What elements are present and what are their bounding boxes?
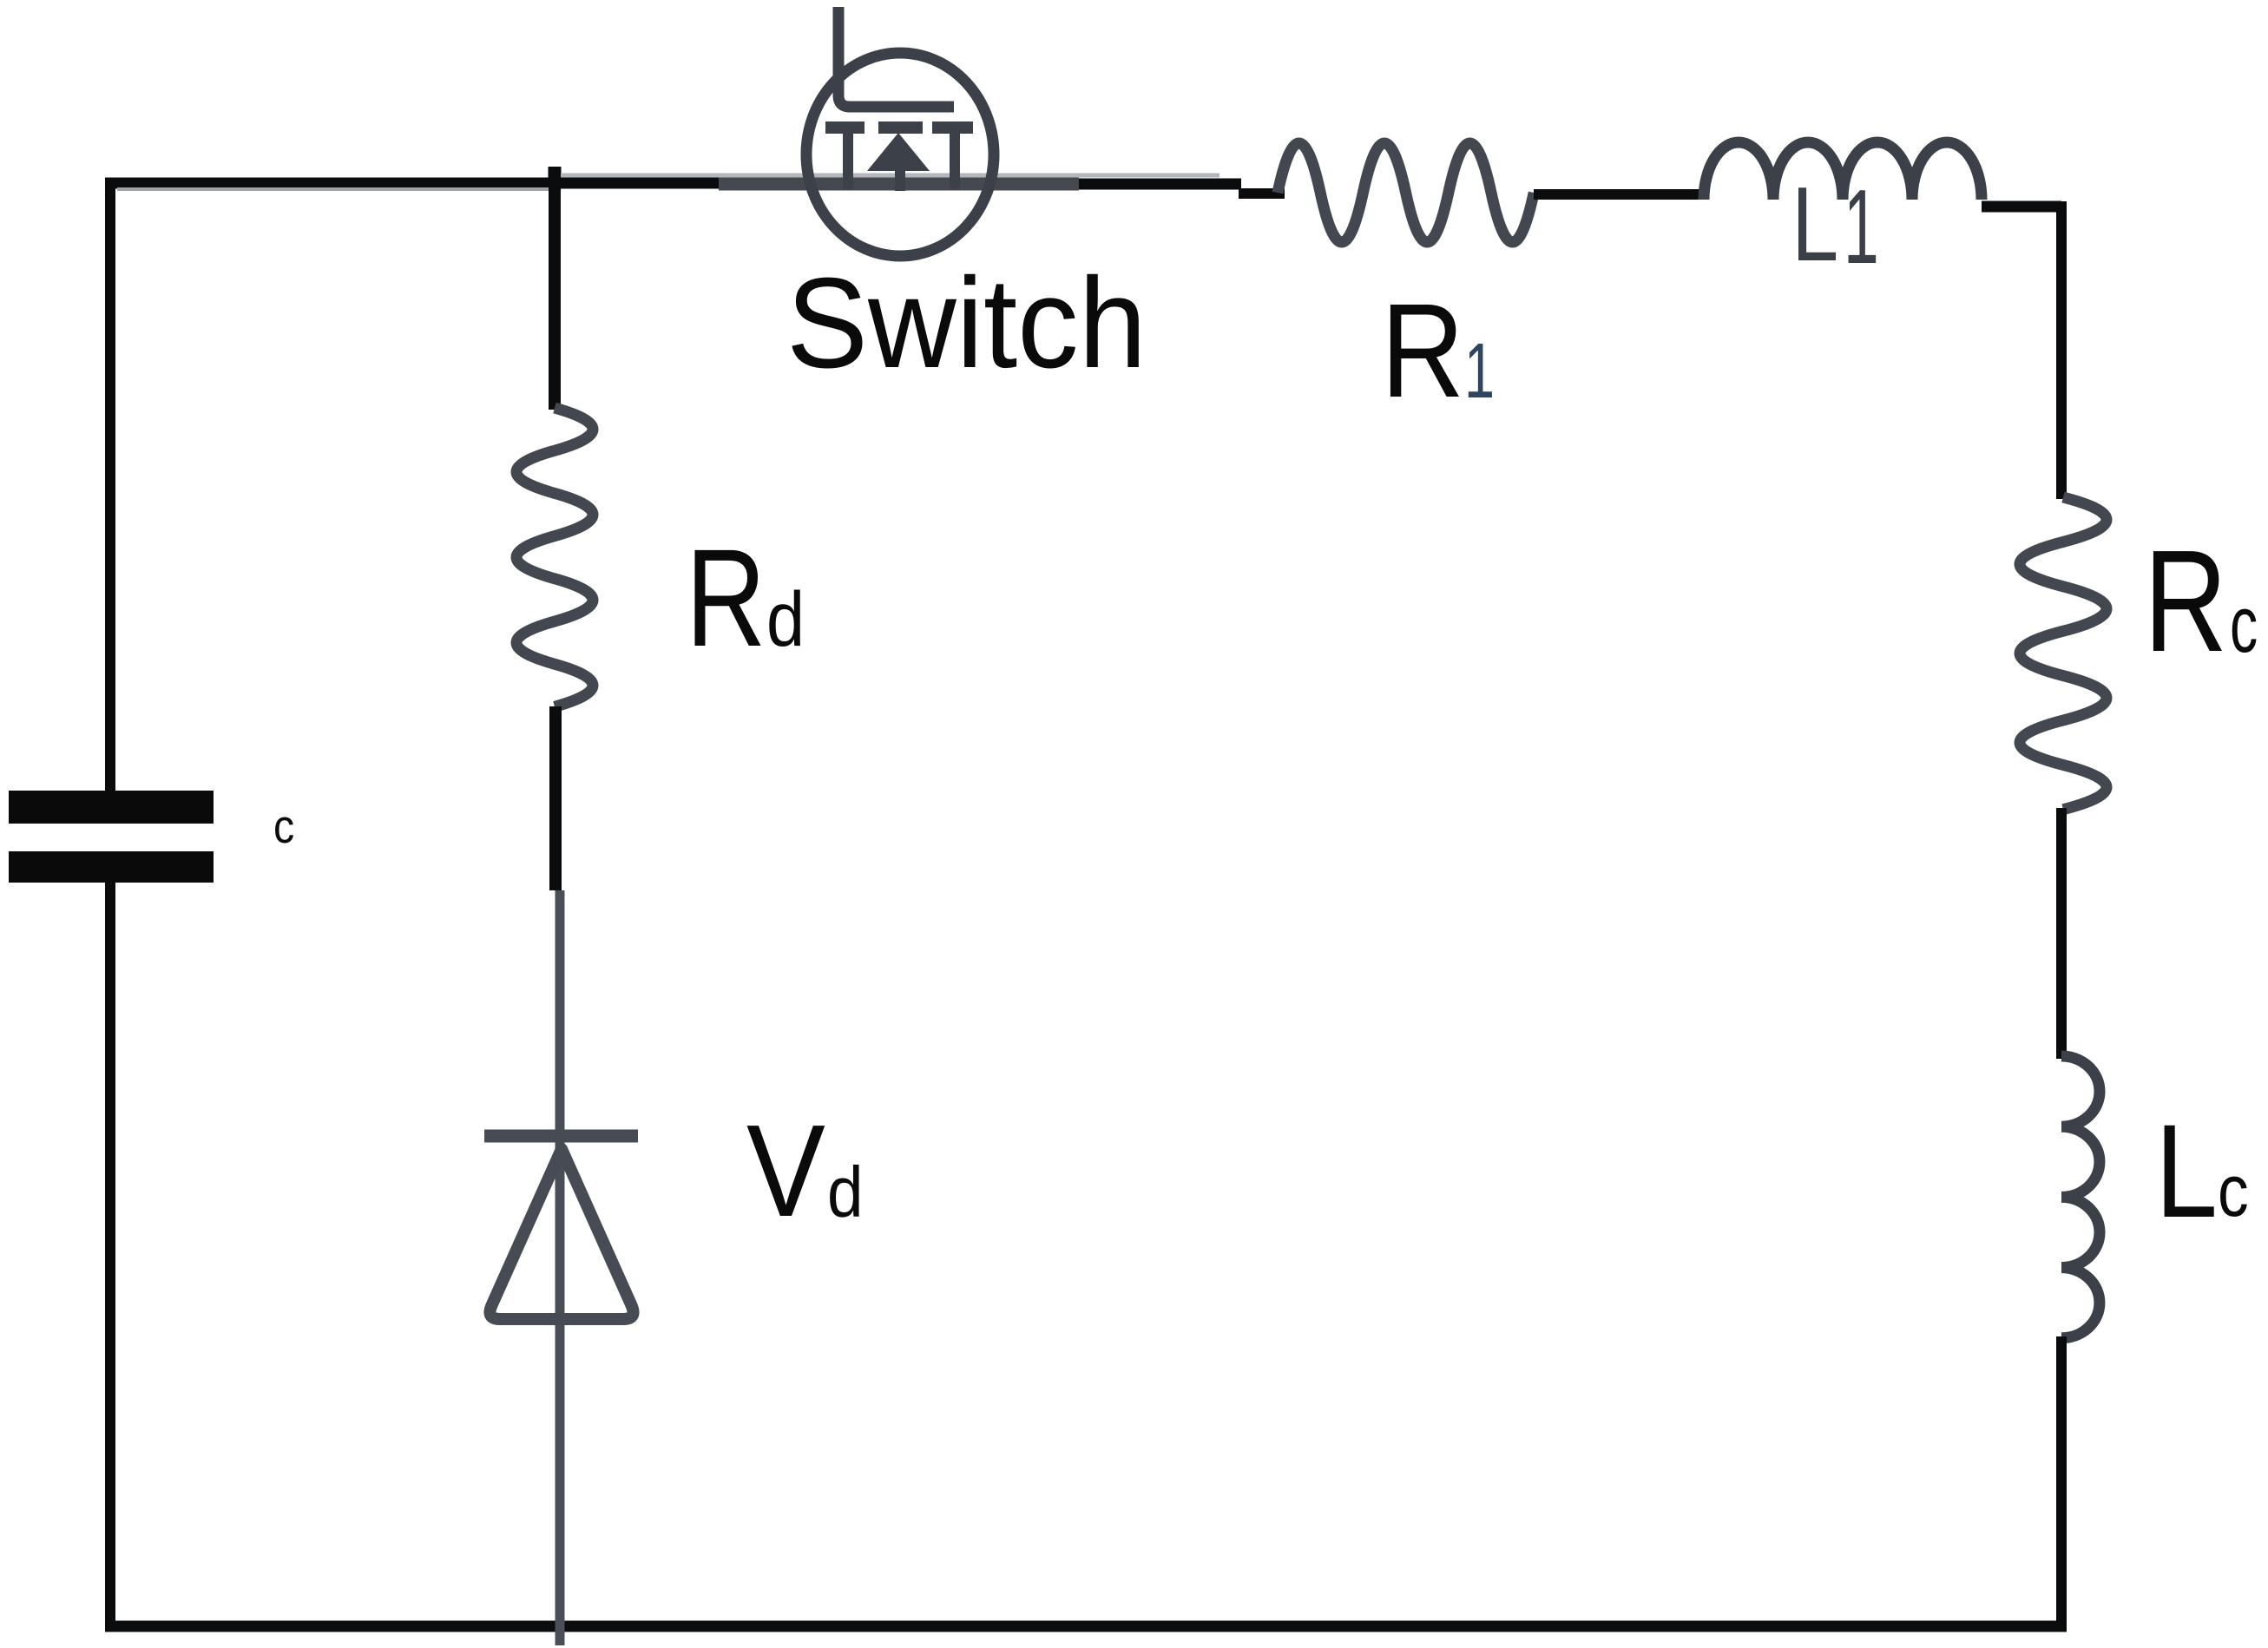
svg-text:c: c	[2218, 1149, 2249, 1231]
resistor R1	[1278, 143, 1534, 242]
label: L1	[1791, 166, 1879, 286]
svg-text:1: 1	[1464, 328, 1495, 415]
wire: right rail lower segment (Lc to bottom-right corner)	[2056, 1336, 2067, 1632]
svg-text:R: R	[2144, 519, 2227, 681]
wire: left rail lower segment (capacitor to bottom rail)	[105, 883, 115, 1632]
wire: R1 left lead (stepped down)	[1239, 188, 1285, 199]
svg-text:Switch: Switch	[786, 251, 1147, 395]
label: R1	[1381, 277, 1495, 425]
wire: left rail upper segment (top-left corner down to capacitor)	[105, 178, 115, 791]
svg-text:d: d	[766, 576, 805, 662]
resistor Rc	[2020, 497, 2107, 810]
node A: junction of Rd branch with top rail (stub above)	[549, 167, 562, 187]
svg-text:c: c	[273, 799, 294, 853]
svg-text:d: d	[827, 1152, 864, 1232]
wire: right rail segment between Rc and Lc	[2056, 808, 2067, 1059]
wire: top rail black segment from top-left corner to node A	[105, 178, 722, 189]
diode Vd	[484, 1136, 638, 1319]
wire: top rail segment between R1 and L1	[1534, 189, 1706, 200]
svg-text:L: L	[1791, 166, 1838, 284]
svg-text:R: R	[686, 520, 766, 675]
wire: right rail upper segment (corner down to Rc)	[2056, 201, 2067, 499]
wire: thin gray fringe below left top-rail segment	[117, 187, 555, 191]
capacitor C	[9, 791, 214, 883]
transistor Switch (MOSFET in circle)	[806, 7, 994, 256]
wire: top rail dark-gray segment through MOSFET	[719, 178, 1079, 191]
wire: bottom rail	[105, 1621, 2067, 1632]
inductor L1	[1704, 142, 1982, 200]
label: Rd	[686, 520, 805, 675]
resistor Rd	[516, 408, 593, 706]
svg-text:L: L	[2155, 1098, 2218, 1246]
inductor Lc	[2061, 1056, 2100, 1338]
wire: Rd branch black segment (node A down to Rd)	[549, 178, 561, 410]
wire: Rd branch black segment (Rd down to gray transition)	[549, 706, 562, 890]
label: Lc	[2155, 1098, 2249, 1246]
label: Rc	[2144, 519, 2258, 681]
svg-text:1: 1	[1844, 168, 1879, 286]
wire: top rail segment from L1 to top-right corner	[1982, 201, 2061, 213]
svg-text:V: V	[746, 1099, 825, 1244]
wire: MOSFET lead line (thin light gray above top rail)	[561, 174, 1219, 178]
wire: diode branch gray segment (down through diode to below bottom rail)	[555, 890, 565, 1645]
svg-text:R: R	[1381, 277, 1464, 425]
label: Vd	[746, 1099, 864, 1244]
svg-text:c: c	[2230, 580, 2258, 669]
wire: top rail black segment from MOSFET to R1	[1079, 179, 1241, 190]
